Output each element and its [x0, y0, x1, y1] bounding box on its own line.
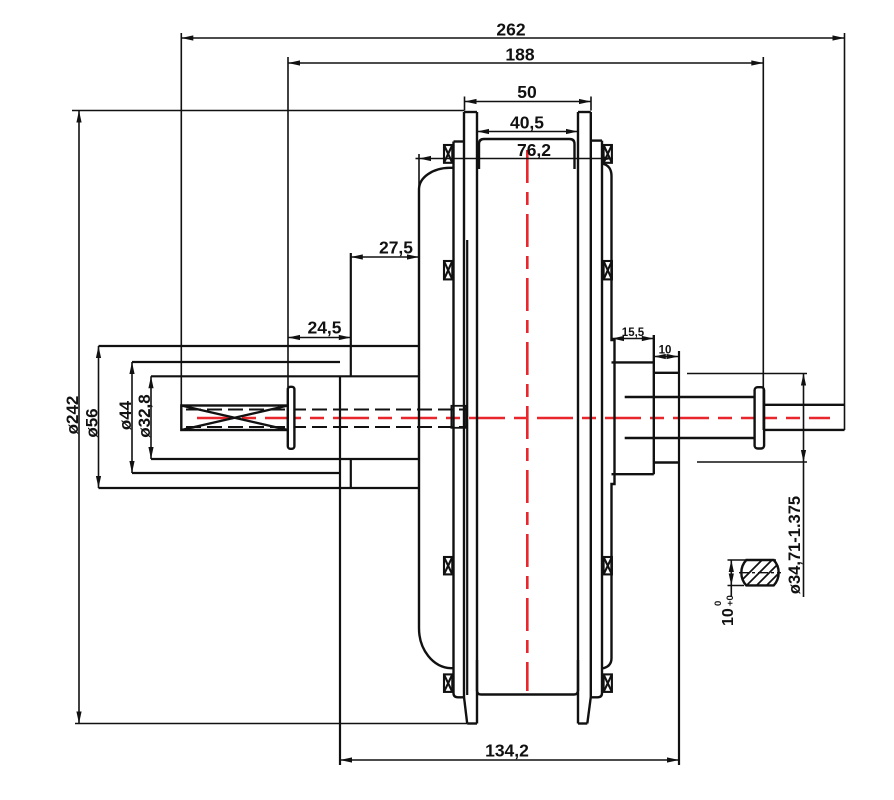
- svg-text:ø56: ø56: [83, 408, 102, 437]
- hub barrel: [477, 139, 578, 695]
- svg-text:27,5: 27,5: [379, 238, 413, 258]
- right side cover: [591, 141, 615, 698]
- svg-text:10: 10: [659, 345, 672, 357]
- svg-text:188: 188: [505, 45, 534, 65]
- washer left: [288, 387, 295, 449]
- freewheel thread section with cross pattern: [181, 406, 288, 431]
- axle cross-section detail: [741, 560, 778, 585]
- boss left face and 134,2 left extension: [339, 376, 341, 765]
- washer right: [755, 387, 765, 448]
- spoke flange right: [578, 112, 591, 724]
- bearing symbol upper-mid-left: [444, 261, 452, 279]
- dimension 76,2: [419, 158, 613, 160]
- svg-text:134,2: 134,2: [485, 741, 529, 761]
- dimension 27,5: [351, 256, 419, 258]
- svg-text:24,5: 24,5: [307, 318, 341, 338]
- dimension dia 44: [131, 362, 133, 473]
- stator edge line left: [466, 240, 468, 695]
- svg-text:76,2: 76,2: [517, 140, 551, 160]
- dimension 24,5: [288, 337, 351, 339]
- dimension 188: [288, 57, 763, 430]
- svg-text:10: 10: [720, 608, 737, 626]
- ring left face: [350, 253, 352, 488]
- dimension 262: [181, 33, 844, 430]
- svg-text:ø32,8: ø32,8: [135, 394, 154, 437]
- bearing symbol upper-mid-right: [604, 261, 612, 279]
- svg-text:0: 0: [713, 601, 724, 606]
- svg-text:ø34,71-1.375: ø34,71-1.375: [786, 496, 804, 594]
- dimension 50: [465, 97, 592, 111]
- extension line left cover face: [418, 154, 420, 190]
- thread step diameter 34.71: [654, 373, 679, 463]
- hatching of axle section: [734, 554, 800, 596]
- bearing symbol top-left: [444, 145, 452, 163]
- bearing symbol lower-mid-left: [444, 557, 452, 574]
- bearing symbol top-right: [604, 145, 612, 163]
- dimension dia 56: [98, 346, 100, 488]
- spoke flange left: [464, 112, 477, 724]
- dimension 10 right step: [654, 356, 679, 358]
- freewheel diameter 44 lines: [132, 362, 340, 473]
- dimension dia 32,8: [150, 376, 152, 459]
- svg-text:15,5: 15,5: [622, 327, 645, 339]
- bearing symbol bottom-left: [444, 674, 452, 692]
- bearing symbol bottom-right: [604, 674, 612, 692]
- svg-text:ø44: ø44: [116, 400, 135, 430]
- svg-text:50: 50: [517, 82, 537, 102]
- axle right end: [764, 405, 844, 430]
- svg-text:262: 262: [496, 20, 525, 40]
- dimension dia 242: [72, 111, 467, 724]
- dimension 10 axle flats: [728, 560, 777, 597]
- axle bushing box in left cover: [451, 406, 466, 428]
- axle mid right: [625, 397, 755, 438]
- dimension 40,5: [477, 131, 578, 133]
- dimension 134,2: [340, 759, 679, 761]
- freewheel ring diameter 56 lines: [99, 346, 420, 488]
- svg-text:ø242: ø242: [63, 396, 82, 435]
- detail centerline: [739, 572, 781, 574]
- left side cover: [419, 142, 464, 698]
- thread end face and 134,2 right extension: [678, 351, 680, 765]
- hidden axle dashed lines: [186, 410, 467, 428]
- dimension dia 34,71-1.375: [687, 374, 807, 598]
- dimension 15,5: [612, 338, 654, 340]
- wire red horizontal axle centerline: [197, 417, 830, 420]
- right rotor step diameter 44: [612, 335, 654, 474]
- wire red vertical hub centerline: [526, 150, 529, 691]
- bearing symbol lower-mid-right: [604, 557, 612, 574]
- svg-text:40,5: 40,5: [510, 113, 544, 133]
- svg-text:+0: +0: [725, 595, 736, 606]
- freewheel boss diameter 32.8 lines: [151, 376, 419, 459]
